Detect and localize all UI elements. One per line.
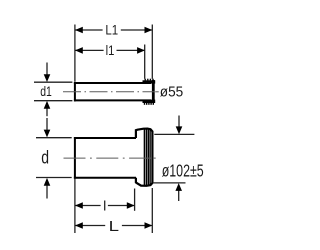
svg-text:ø55: ø55 bbox=[160, 85, 183, 101]
svg-text:l: l bbox=[103, 197, 106, 213]
svg-text:ø102±5: ø102±5 bbox=[162, 160, 204, 180]
svg-text:d: d bbox=[41, 147, 49, 167]
svg-text:L: L bbox=[109, 219, 119, 235]
svg-text:l1: l1 bbox=[106, 42, 115, 58]
svg-text:d1: d1 bbox=[40, 83, 52, 99]
svg-text:L1: L1 bbox=[105, 22, 118, 38]
